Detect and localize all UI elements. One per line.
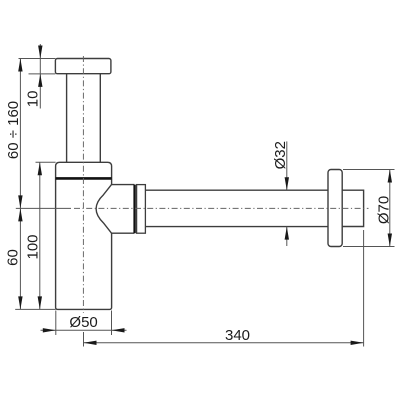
dimension Ø32 line below pipe [286,227,288,246]
dimension 340 extension line right [363,230,365,347]
dimension 60÷160 line [19,59,21,209]
dimension 340 extension line left [83,332,85,347]
dimension 10 arrow down [38,46,42,59]
extension line at flange top (y=58.5) [19,58,56,60]
dimension Ø32 line above pipe [286,141,288,190]
body cap (upper nut of bottle trap) [56,162,112,180]
svg-text:10: 10 [25,91,42,108]
svg-text:60: 60 [4,249,21,266]
dimension Ø32 arrow up [285,227,289,240]
dimension 10 line [39,44,41,109]
svg-text:340: 340 [225,327,250,344]
dimension 60 line [19,208,21,309]
svg-text:Ø32: Ø32 [272,141,289,169]
extension line at flange bottom (y=73.9) [29,73,56,75]
pipe stub behind wall flange [342,190,363,226]
outlet pipe Ø32 (horizontal) [145,190,328,226]
wall flange (rosette Ø70) [328,170,342,247]
dimension 100 line [39,162,41,309]
dimension Ø32 arrow down [285,177,289,190]
dimension Ø50 extension line right [111,311,113,336]
dimension Ø50 extension line left [55,311,57,336]
dimension Ø50 arrow right [43,328,56,332]
elbow (curved outlet transition) [96,185,134,234]
svg-text:60 ÷ 160: 60 ÷ 160 [5,101,22,159]
dimension Ø50 arrow left [112,328,125,332]
top flange [55,59,111,74]
compression nut [137,185,146,234]
dimension 60÷160 arrow down [18,195,22,208]
body cap joint thick line [56,177,112,180]
extension line at body bottom (y=309.4) [15,308,55,310]
dimension Ø70 extension line bottom [343,246,395,248]
tailpiece pipe (vertical inlet tube) [67,74,101,163]
trap body (cylinder Ø50) [56,180,112,310]
vertical centerline of trap body [82,56,84,313]
svg-text:Ø70: Ø70 [376,196,393,224]
svg-text:Ø50: Ø50 [69,314,97,331]
dimension Ø50 line [41,329,127,331]
extension line at cap top (y=162.3) [36,161,56,163]
dimension 60 arrow down [18,296,22,309]
dimension 340 arrow left [84,341,97,345]
dimension 340 arrow right [351,341,364,345]
dimension 10 arrow up [38,74,42,87]
dimension 100 arrow up [38,162,42,175]
extension line at pipe axis (y=208.4) [16,207,71,209]
dimension Ø70 line [389,170,391,247]
elbow end thick line [133,185,135,234]
horizontal centerline of outlet pipe [74,207,369,209]
dimension Ø70 arrow up [388,170,392,183]
dimension Ø70 arrow down [388,234,392,247]
dimension 340 line [84,342,364,344]
svg-text:100: 100 [25,234,42,259]
dimension 100 arrow down [38,296,42,309]
dimension 60 arrow up [18,208,22,221]
dimension 60÷160 arrow up [18,59,22,72]
dimension Ø70 extension line top [343,169,395,171]
